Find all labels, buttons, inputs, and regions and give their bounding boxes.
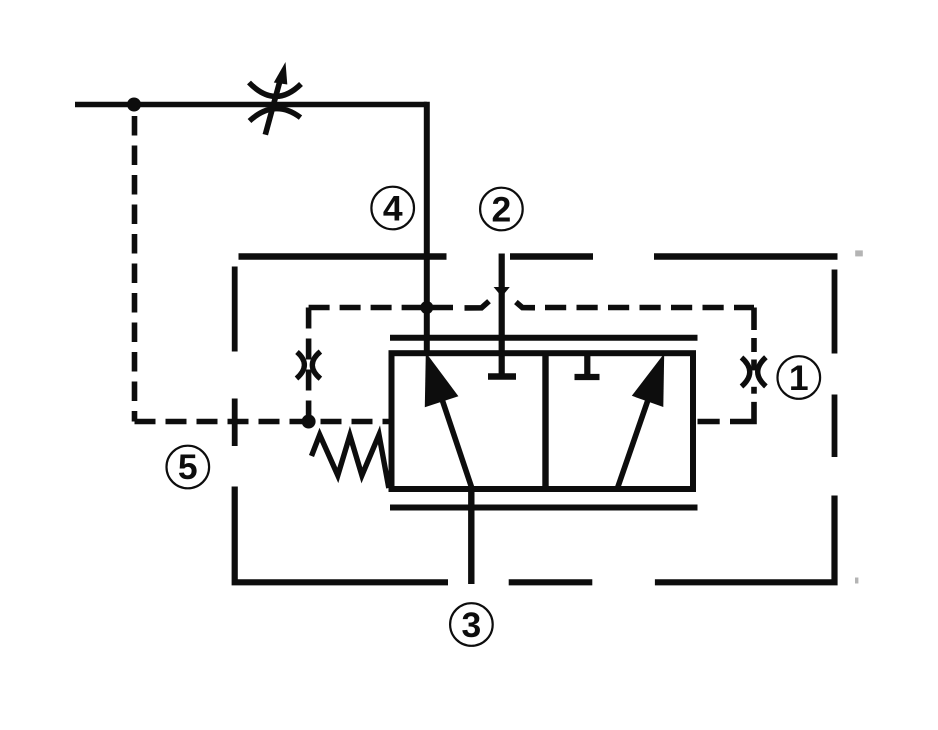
wire: bent dash left of pilot arrow [465, 301, 490, 308]
valve V1 left position: flow arrow shaft [433, 371, 472, 488]
port label 1: circle [778, 356, 821, 399]
port 2 arrowhead (pilot tap, pointing down) [494, 287, 510, 297]
wire: bent dash right of pilot arrow [516, 302, 535, 308]
port label 5: circle [167, 446, 210, 489]
port label 3: circle [450, 603, 493, 646]
valve V1 right position: flow arrow head [632, 354, 664, 408]
wire: dashed pilot loop, top left run [309, 305, 453, 311]
node: junction dot pilot line to port 4 line [420, 301, 433, 314]
port label 4: circle [371, 187, 414, 230]
wire: dashed pilot loop, right vertical dash 3 [751, 360, 757, 371]
orifice O1 (left pilot restriction): left arc [297, 352, 305, 379]
envelope: bottom edge dash 2 [509, 579, 593, 585]
wire: dashed pilot line port 5, vertical drop from main line [132, 108, 138, 422]
wire: main inlet line (port 4 supply, horizontal) [75, 102, 427, 108]
port 2 blocked symbol T-bar inside valve [488, 373, 516, 380]
valve V1 right position: blocked port T bar [575, 374, 600, 380]
valve V1 right position: blocked port T stem [584, 353, 590, 374]
svg-text:2: 2 [492, 189, 512, 229]
wire: dashed pilot loop, top right run [538, 305, 754, 311]
envelope: bottom-left corner dash [235, 487, 448, 583]
orifice O1 (left pilot restriction): right arc [312, 352, 320, 379]
flow control valve FC1: lower arc [250, 109, 301, 121]
wire: port 4 vertical line down to valve [424, 102, 430, 356]
valve V1: lower connection rail [390, 505, 698, 511]
valve V1: upper connection rail [390, 335, 698, 341]
spring S1 (left bias spring) [312, 435, 389, 488]
envelope: top edge dash 2 [510, 253, 593, 259]
orifice O2 (right pilot restriction): left arc [742, 358, 750, 387]
wire: dashed pilot loop, right vertical dash 1 [751, 308, 757, 331]
artifact: faint gray tick bottom right [855, 578, 858, 584]
envelope: top edge dash 3 [654, 253, 838, 259]
wire: dashed pilot loop, stub dash to valve right side [698, 419, 720, 425]
port label 2: circle [480, 188, 523, 231]
svg-text:4: 4 [383, 188, 403, 228]
valve V1: center divider between positions [542, 353, 548, 489]
valve V1: body (two position boxes) [392, 353, 694, 489]
envelope: right edge dash 1 [832, 270, 838, 354]
svg-text:5: 5 [178, 447, 198, 487]
wire: port 2 line from envelope top into valve [499, 254, 505, 376]
envelope: bottom-right corner dash [655, 496, 835, 583]
artifact: faint gray tick top right [855, 250, 863, 256]
wire: dashed pilot loop, right vertical dash 2 [751, 338, 757, 352]
envelope: left edge dash 1 [232, 267, 238, 352]
wire: dashed pilot line port 5, horizontal run to valve [135, 419, 389, 425]
orifice O2 (right pilot restriction): right arc [758, 357, 766, 386]
flow control valve FC1: upper arc [249, 83, 301, 97]
wire: dashed pilot loop, left vertical through orifice [306, 308, 312, 422]
envelope: left edge dash 2 [232, 399, 238, 447]
valve V1 left position: flow arrow head [425, 353, 459, 408]
node: junction dot on pilot line at spring side [302, 415, 316, 429]
envelope: top edge dash 1 [239, 253, 447, 259]
wire: dashed pilot loop, right vertical dash 4 [751, 387, 757, 394]
flow control valve FC1: adjustment arrow shaft [265, 77, 281, 135]
envelope: right edge dash 2 [832, 395, 838, 458]
valve V1 right position: flow arrow shaft [618, 371, 659, 488]
wire: port 3 line from valve bottom to envelope [468, 487, 474, 584]
node: junction dot on main line [127, 98, 141, 112]
svg-text:1: 1 [789, 358, 809, 398]
svg-text:3: 3 [462, 605, 482, 645]
flow control valve FC1: adjustment arrow head [274, 62, 288, 85]
wire: dashed pilot loop, bottom right corner dash [730, 402, 754, 422]
